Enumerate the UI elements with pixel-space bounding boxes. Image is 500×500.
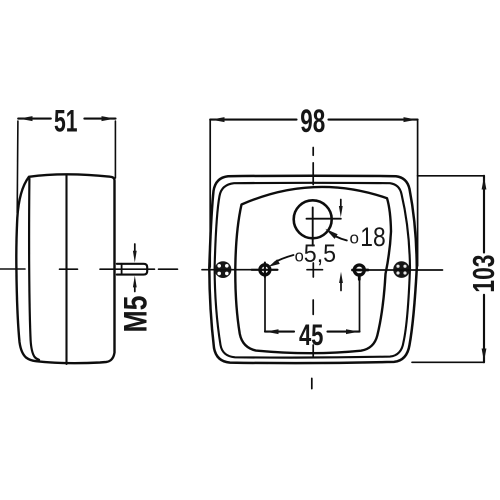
dimension 98 arrow left	[211, 117, 225, 122]
dimension 98 arrow right	[404, 117, 417, 122]
dimension 45 line	[265, 331, 360, 333]
dimension 103 extensions	[412, 176, 484, 362]
side view lens rim inner line	[29, 179, 39, 360]
left mounting hole o5.5	[260, 265, 270, 275]
dimension 51 arrow left	[19, 116, 33, 121]
dimension 45 extensions	[265, 278, 360, 332]
stud arrow upper (down)	[134, 244, 136, 252]
dimension 103 line	[483, 176, 485, 362]
svg-text:18: 18	[360, 222, 385, 252]
svg-text:o: o	[295, 248, 304, 266]
side view body outline	[16, 174, 114, 363]
hole o18	[294, 200, 332, 238]
dimension 51 extension left	[16, 121, 19, 213]
horizontal centerline left segments	[0, 268, 178, 270]
dimension 103 arrow top	[482, 177, 487, 190]
front view outer silhouette	[209, 176, 416, 363]
svg-text:45: 45	[299, 319, 324, 352]
M5 stud	[117, 264, 147, 275]
svg-text:103: 103	[466, 255, 500, 293]
svg-text:o: o	[350, 228, 359, 247]
right lug screw	[393, 261, 410, 278]
svg-text:M5: M5	[118, 296, 154, 333]
dimension 51 arrow right	[102, 116, 116, 121]
front view horizontal centerline	[202, 269, 443, 271]
o18 crosshair	[307, 208, 341, 246]
dimension 98 extensions	[210, 120, 417, 267]
svg-text:98: 98	[300, 103, 325, 139]
small arrow to holes centerline (up)	[340, 283, 342, 291]
side view parting line	[65, 175, 67, 365]
stud arrow lower (up)	[134, 286, 136, 292]
right mounting hole o5.5	[354, 265, 364, 275]
leader o18	[336, 237, 347, 241]
dimension 51 line	[18, 118, 115, 120]
dimension 103 arrow bottom	[482, 349, 487, 362]
dimension 45 arrow right	[346, 329, 359, 334]
front view vertical centerline	[312, 148, 314, 389]
front view lens opening	[235, 187, 391, 353]
dimension 45 arrow left	[265, 329, 278, 334]
svg-text:5,5: 5,5	[304, 240, 336, 268]
small arrow to o18 centerline (down)	[340, 200, 342, 208]
dimension 98 line	[210, 119, 417, 121]
svg-text:51: 51	[54, 103, 78, 139]
left lug screw	[215, 261, 232, 278]
leader o5,5	[275, 255, 294, 263]
front view second outline	[215, 183, 410, 358]
dimension 51 extension right	[114, 121, 116, 178]
M5 stud flange line	[121, 264, 123, 275]
